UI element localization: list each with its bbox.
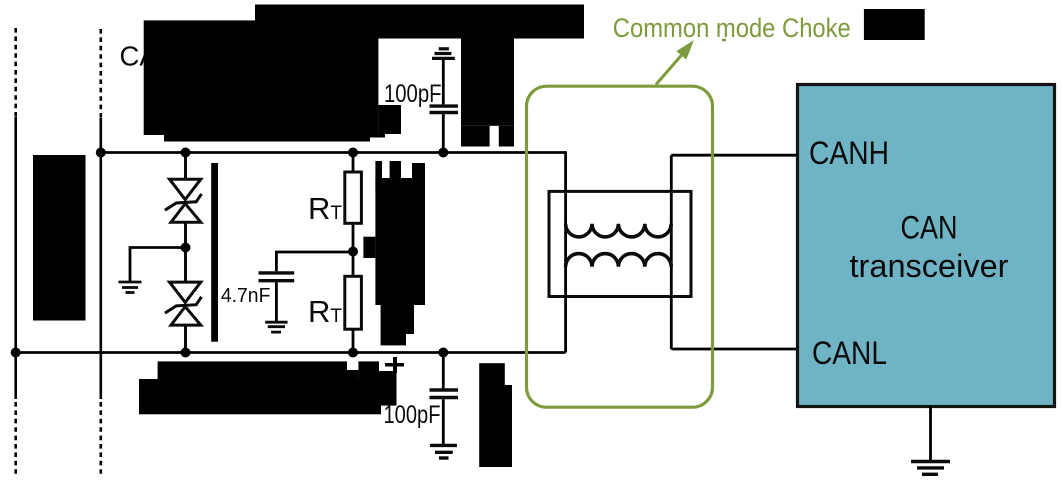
capacitor C1 100pF (top)	[442, 114, 445, 152]
redaction bottom-right column	[479, 363, 505, 385]
bus line 1 (left vertical, dashed/solid)	[14, 28, 17, 476]
redaction block right of choke label	[864, 9, 925, 40]
capacitor C3 100pF (bottom)	[442, 353, 445, 389]
redaction mass right of RT	[375, 178, 425, 305]
transformer box T1	[549, 191, 691, 296]
node TVS top	[181, 148, 191, 158]
node TVS middle	[181, 243, 191, 253]
ground (TVS center)	[119, 282, 142, 293]
common mode choke outline (green rounded box)	[527, 86, 713, 407]
TVS diode D1 (bidirectional, top)	[165, 153, 202, 283]
wire TVS center to ground	[130, 248, 186, 282]
svg-text:CANH: CANH	[809, 135, 889, 171]
node RT middle	[348, 247, 358, 257]
svg-text:CANL: CANL	[812, 335, 887, 371]
node TVS bottom	[181, 348, 191, 358]
wire CANL bottom bus	[16, 351, 566, 354]
node bottom bus at line1	[11, 348, 21, 358]
wire CANH top bus	[101, 151, 566, 154]
resistor RT2	[345, 276, 362, 329]
choke left vertical wire	[564, 151, 567, 352]
wire CANH from choke to transceiver	[671, 154, 797, 157]
winding L1 (top)	[566, 224, 672, 237]
bus line 2 (second vertical, dashed/solid)	[100, 29, 103, 476]
winding L2 (bottom)	[566, 254, 672, 267]
redaction blocks (black)	[33, 5, 925, 468]
svg-text:CAN: CAN	[901, 210, 958, 246]
wire CANL from choke to transceiver	[671, 348, 797, 351]
svg-text:Common mode Choke: Common mode Choke	[613, 13, 851, 43]
resistor RT1	[352, 153, 355, 173]
capacitor C2 4.7nF	[259, 273, 295, 281]
wire RT midpoint to capacitor C2	[276, 252, 353, 271]
ground (transceiver)	[911, 462, 950, 475]
CAN transceiver U1	[798, 85, 1055, 407]
ground (C3)	[430, 445, 457, 458]
svg-text:100pF: 100pF	[384, 80, 442, 108]
redaction main top-left mass	[144, 20, 379, 135]
node C1 top bus	[438, 148, 448, 158]
redaction bottom-left mass	[158, 361, 347, 379]
redaction left rect	[33, 155, 86, 321]
ground (C1, inverted)	[432, 49, 455, 59]
svg-text:transceiver: transceiver	[850, 248, 1009, 284]
redaction column right of 100pF top	[461, 38, 514, 126]
TVS diode D2 (bidirectional, bottom)	[165, 282, 202, 352]
node on top bus at line2	[96, 148, 106, 158]
node RT top	[348, 148, 358, 158]
arrow to choke	[656, 55, 681, 84]
ground (C2)	[265, 322, 287, 332]
wire transceiver to ground	[929, 407, 932, 461]
node C3 bottom bus	[438, 348, 448, 358]
stray mark	[722, 39, 726, 41]
redaction top strip	[255, 5, 584, 39]
choke right vertical wire	[670, 155, 673, 349]
redaction bar right of TVS	[211, 163, 218, 342]
node RT bottom	[348, 348, 358, 358]
svg-text:4.7nF: 4.7nF	[221, 284, 271, 307]
